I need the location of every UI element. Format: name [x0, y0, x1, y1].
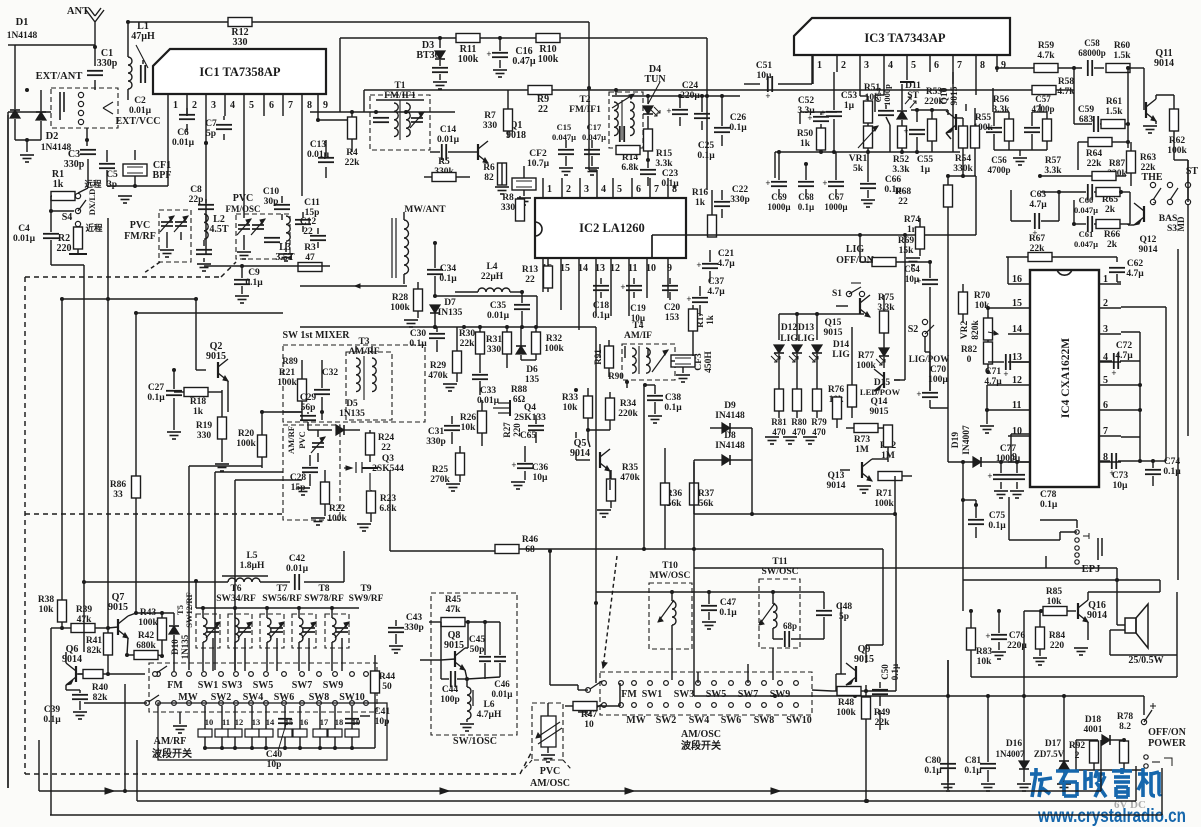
diode D5	[308, 399, 365, 435]
inductor L2	[196, 214, 229, 271]
bank1 padder caps C40 row	[158, 703, 387, 760]
svg-text:L5: L5	[246, 551, 257, 561]
svg-text:IC2 LA1260: IC2 LA1260	[579, 221, 645, 235]
svg-text:C81: C81	[965, 756, 982, 766]
resistor R32	[532, 327, 565, 360]
svg-text:SW6: SW6	[721, 715, 742, 726]
wire left v x108	[106, 218, 110, 628]
svg-text:4: 4	[230, 100, 235, 111]
LED D14	[809, 340, 850, 390]
svg-text:FM: FM	[167, 680, 183, 691]
resistor R23	[357, 490, 397, 531]
svg-text:IN4148: IN4148	[715, 411, 745, 421]
bank2 row1 labels	[621, 689, 790, 700]
svg-text:10µ: 10µ	[533, 473, 549, 483]
svg-text:4: 4	[888, 60, 893, 71]
resistor R3	[298, 243, 322, 272]
wire bank2 to q9	[812, 603, 880, 803]
svg-text:C46: C46	[494, 679, 510, 689]
svg-text:R87: R87	[1109, 159, 1126, 169]
svg-text:15: 15	[1012, 298, 1022, 309]
svg-text:68p: 68p	[783, 621, 797, 631]
svg-text:R5: R5	[438, 157, 450, 167]
capacitor C43	[388, 613, 424, 653]
svg-text:0.1µ: 0.1µ	[1040, 500, 1058, 510]
svg-text:R22: R22	[329, 504, 346, 514]
resistor R81	[765, 389, 787, 444]
svg-text:C32: C32	[322, 368, 339, 378]
svg-text:11: 11	[628, 263, 637, 274]
resistor R52	[892, 126, 910, 175]
speaker	[1117, 580, 1164, 666]
bank1 MW lever	[84, 695, 159, 705]
svg-text:0.1µ: 0.1µ	[592, 311, 610, 321]
wire q5 links	[574, 344, 648, 490]
resistor R37	[690, 462, 715, 516]
capacitor C75	[961, 498, 1006, 538]
capacitor C68	[798, 162, 815, 212]
resistor R49	[862, 689, 891, 730]
svg-text:135: 135	[525, 375, 540, 385]
wire x948 riser	[947, 660, 949, 696]
svg-text:VR1: VR1	[849, 154, 868, 164]
svg-text:C7: C7	[205, 119, 217, 129]
svg-text:2: 2	[841, 60, 846, 71]
svg-text:SW2: SW2	[656, 715, 677, 726]
wire lamp top rail	[652, 176, 976, 258]
svg-text:1k: 1k	[705, 315, 715, 325]
wire bottom risers	[39, 684, 1101, 801]
varactor AM/RF PVC	[286, 426, 325, 462]
svg-text:R47: R47	[581, 710, 598, 720]
svg-text:22: 22	[898, 197, 908, 207]
svg-text:9: 9	[323, 100, 328, 111]
resistor R47	[565, 683, 620, 730]
svg-text:0.1µ: 0.1µ	[798, 202, 815, 212]
svg-text:IC4 CXA1622M: IC4 CXA1622M	[1060, 338, 1072, 418]
svg-text:T8: T8	[318, 584, 329, 594]
IC2 bottom pins	[542, 258, 672, 330]
wire T4 out	[588, 430, 590, 447]
svg-text:C58: C58	[1084, 38, 1100, 48]
wire dashed gang top	[25, 262, 236, 277]
svg-text:12: 12	[1012, 375, 1022, 386]
bank2 contacts	[602, 681, 799, 708]
resistor R83	[967, 609, 993, 677]
svg-text:18: 18	[335, 717, 344, 727]
svg-text:4.7µ: 4.7µ	[707, 287, 725, 297]
capacitor C17	[582, 122, 606, 175]
transistor Q5 9014	[570, 438, 610, 480]
band switch bank1	[149, 663, 377, 712]
svg-text:4.7µ: 4.7µ	[1126, 269, 1144, 279]
resistor R4	[345, 112, 361, 168]
resistor R68	[895, 174, 953, 408]
svg-text:R38: R38	[38, 595, 55, 605]
capacitor C10	[263, 187, 290, 220]
svg-text:68000p: 68000p	[1078, 48, 1106, 58]
svg-text:9015: 9015	[108, 602, 128, 613]
svg-text:Q4: Q4	[524, 403, 536, 413]
ground bank1 MW	[173, 712, 187, 733]
capacitor C35	[487, 292, 530, 329]
transistor Q1 9018	[462, 120, 526, 163]
svg-text:+: +	[903, 126, 908, 136]
svg-text:R31: R31	[486, 335, 503, 345]
capacitor C59	[1074, 90, 1101, 132]
svg-text:C78: C78	[1040, 490, 1057, 500]
svg-text:Q15: Q15	[825, 318, 842, 328]
transformer T11 SW/OSC	[759, 557, 800, 648]
inductor L6	[460, 679, 502, 731]
resistor R86	[110, 440, 141, 514]
diode D3	[416, 36, 448, 89]
svg-text:FM/RF: FM/RF	[124, 231, 156, 242]
wire left h299	[62, 297, 198, 370]
svg-text:C66: C66	[885, 175, 902, 185]
resistor R6	[483, 163, 509, 194]
svg-text:R40: R40	[92, 683, 109, 693]
resistor R53	[911, 87, 948, 152]
svg-text:D16: D16	[1006, 739, 1023, 749]
svg-text:PVC: PVC	[540, 766, 561, 777]
svg-text:470: 470	[792, 427, 806, 437]
svg-text:4700p: 4700p	[987, 165, 1010, 175]
wire pins 12 11 gnd	[980, 385, 1008, 433]
svg-text:82k: 82k	[93, 693, 109, 703]
svg-text:33: 33	[113, 490, 123, 500]
transformer T10 MW/OSC	[649, 561, 692, 649]
resistor R74	[904, 215, 925, 265]
svg-text:R33: R33	[562, 393, 579, 403]
resistor R17	[689, 305, 716, 356]
svg-text:R83: R83	[976, 647, 993, 657]
svg-text:330p: 330p	[426, 437, 446, 447]
capacitor C4	[13, 196, 84, 265]
svg-text:+: +	[486, 49, 491, 59]
capacitor C51	[744, 56, 812, 101]
svg-text:R66: R66	[1104, 230, 1121, 240]
svg-text:C51: C51	[756, 61, 773, 71]
svg-text:D9: D9	[724, 401, 736, 411]
svg-text:R27: R27	[502, 422, 512, 438]
svg-text:100k: 100k	[458, 54, 479, 65]
svg-text:10p: 10p	[375, 717, 390, 727]
svg-text:0.01µ: 0.01µ	[307, 150, 330, 160]
wire jack to C3	[85, 128, 89, 146]
inductor L3	[275, 216, 295, 263]
svg-text:C6: C6	[177, 128, 189, 138]
svg-text:SW7: SW7	[292, 680, 313, 691]
label R89	[282, 356, 298, 366]
resistor R21	[277, 360, 306, 412]
svg-text:100k: 100k	[544, 344, 564, 354]
capacitor C41	[360, 707, 390, 727]
svg-text:C56: C56	[991, 155, 1007, 165]
svg-text:10k: 10k	[461, 423, 477, 433]
svg-text:D5: D5	[346, 399, 358, 409]
resistor R50	[797, 128, 826, 154]
svg-text:R26: R26	[460, 413, 477, 423]
IC3 pins	[813, 55, 1006, 72]
resistor R11	[456, 34, 480, 66]
svg-text:22p: 22p	[189, 195, 204, 205]
svg-text:100k: 100k	[1167, 146, 1187, 156]
svg-text:100p: 100p	[440, 695, 460, 705]
svg-text:R84: R84	[1049, 631, 1066, 641]
transistor Q2 9015	[196, 341, 228, 390]
transistor Q6 9014	[62, 644, 83, 690]
svg-text:0.01µ: 0.01µ	[487, 311, 510, 321]
wire Q16 emitter gnd	[1074, 648, 1088, 655]
svg-text:AM/OSC: AM/OSC	[681, 729, 721, 740]
capacitor C13	[307, 116, 356, 178]
svg-text:0.047µ: 0.047µ	[582, 132, 606, 142]
transformer T2 FM/IF1	[569, 92, 643, 148]
resistor R63	[1127, 142, 1157, 186]
ground below D2	[20, 155, 34, 162]
svg-text:1N135: 1N135	[339, 409, 365, 419]
svg-text:R41: R41	[86, 636, 103, 646]
svg-text:153: 153	[665, 313, 680, 323]
svg-text:3: 3	[864, 60, 869, 71]
svg-text:10: 10	[1012, 426, 1022, 437]
svg-text:D8: D8	[724, 431, 736, 441]
switch S1 LIG OFF/ON	[832, 244, 875, 299]
svg-text:AM/OSC: AM/OSC	[530, 778, 570, 789]
svg-text:3: 3	[584, 184, 589, 195]
capacitor C62	[1109, 259, 1144, 282]
resistor R19	[196, 390, 227, 450]
label SW 1st MIXER	[282, 330, 350, 341]
svg-text:2SK133: 2SK133	[514, 413, 546, 423]
svg-text:ANT: ANT	[67, 6, 89, 17]
svg-text:C45: C45	[469, 635, 486, 645]
svg-text:2: 2	[1103, 298, 1108, 309]
svg-text:C80: C80	[925, 756, 942, 766]
svg-text:8.2: 8.2	[1119, 722, 1131, 732]
svg-text:5p: 5p	[206, 129, 216, 139]
svg-text:1: 1	[817, 60, 822, 71]
wire dashed pvc diag	[144, 262, 160, 273]
svg-text:C12: C12	[300, 217, 317, 227]
svg-text:C52: C52	[798, 96, 815, 106]
wire top rail	[126, 20, 228, 24]
svg-text:220: 220	[512, 423, 522, 437]
svg-text:IN4148: IN4148	[715, 441, 745, 451]
capacitor C30	[409, 327, 445, 352]
wire bank2 drops	[672, 648, 773, 683]
svg-text:3.3k: 3.3k	[655, 159, 673, 169]
svg-text:+: +	[765, 178, 770, 188]
svg-text:4.7µH: 4.7µH	[477, 710, 502, 720]
svg-text:SW5: SW5	[706, 689, 727, 700]
svg-text:5k: 5k	[853, 164, 864, 174]
wire left v x83	[83, 265, 85, 652]
svg-text:+: +	[1003, 369, 1008, 379]
svg-text:1k: 1k	[53, 179, 64, 190]
resistor R16	[692, 188, 717, 237]
capacitor C54	[873, 84, 894, 152]
svg-text:Q3: Q3	[382, 454, 394, 464]
capacitor C38	[643, 383, 682, 423]
transistor Q3 2SK544	[344, 454, 404, 490]
svg-text:9014: 9014	[827, 481, 846, 491]
svg-text:C65: C65	[520, 431, 537, 441]
capacitor C12	[300, 217, 326, 248]
resistor R38	[38, 590, 67, 630]
wire lamp bus down	[651, 235, 653, 258]
capacitor C22	[714, 185, 750, 218]
svg-text:C13: C13	[310, 140, 327, 150]
svg-text:0.01µ: 0.01µ	[492, 689, 514, 699]
svg-text:13: 13	[595, 263, 605, 274]
diode D11 ST	[897, 81, 921, 127]
capacitor C7	[204, 116, 232, 145]
resistor R66	[1096, 192, 1130, 250]
svg-text:MW/ANT: MW/ANT	[404, 205, 446, 215]
svg-text:SW9/RF: SW9/RF	[349, 594, 384, 604]
svg-text:R6: R6	[483, 163, 495, 173]
svg-text:R92: R92	[1069, 741, 1086, 751]
wire second rail	[340, 38, 709, 190]
svg-text:R69: R69	[898, 236, 915, 246]
svg-text:SW6: SW6	[274, 692, 295, 703]
svg-text:LIG: LIG	[846, 244, 865, 255]
wire q13 to r72	[872, 456, 888, 462]
svg-text:220k: 220k	[618, 409, 638, 419]
resistor R12	[228, 18, 597, 179]
svg-text:7: 7	[288, 100, 293, 111]
svg-text:T9: T9	[360, 584, 371, 594]
svg-text:C23: C23	[662, 169, 679, 179]
svg-text:450H: 450H	[704, 351, 714, 373]
resistor R85	[1024, 587, 1076, 616]
svg-text:PVC: PVC	[233, 193, 254, 204]
svg-text:100µ: 100µ	[928, 375, 948, 385]
svg-text:14: 14	[266, 717, 275, 727]
capacitor C69	[765, 150, 791, 212]
svg-text:100k: 100k	[538, 54, 559, 65]
wire IC1 pin1 down	[167, 116, 169, 186]
capacitor C64	[904, 260, 938, 294]
capacitor C2	[115, 60, 160, 127]
transformer T3 AM/RF	[346, 337, 392, 420]
svg-text:EXT/VCC: EXT/VCC	[115, 116, 160, 127]
transformer T6	[216, 584, 256, 604]
transformer T7	[262, 584, 302, 604]
svg-text:D6: D6	[526, 365, 538, 375]
resistor R76	[828, 385, 845, 428]
svg-text:R68: R68	[895, 187, 912, 197]
svg-text:+: +	[820, 108, 825, 118]
svg-text:100k: 100k	[856, 361, 876, 371]
svg-text:22: 22	[525, 275, 535, 285]
svg-text:SW4: SW4	[689, 715, 710, 726]
wire main AM bus	[300, 325, 596, 329]
svg-text:12: 12	[610, 263, 620, 274]
svg-text:R52: R52	[893, 155, 910, 165]
dashed box mixer	[283, 345, 425, 520]
svg-text:C77: C77	[1000, 444, 1017, 454]
transformer T8	[304, 584, 344, 604]
svg-text:R70: R70	[974, 291, 991, 301]
svg-text:LIG/POW: LIG/POW	[909, 354, 950, 364]
capacitor C18	[592, 278, 610, 321]
capacitor C37	[686, 277, 725, 316]
svg-text:R32: R32	[546, 334, 563, 344]
svg-text:MW: MW	[178, 692, 197, 703]
svg-text:0.01µ: 0.01µ	[129, 106, 152, 116]
svg-text:2k: 2k	[1107, 240, 1118, 250]
svg-text:0.1µ: 0.1µ	[439, 274, 457, 284]
svg-text:+: +	[822, 178, 827, 188]
svg-text:820k: 820k	[971, 320, 981, 340]
transistor Q13 9014	[827, 459, 873, 493]
svg-text:R78: R78	[1117, 712, 1134, 722]
svg-text:SW2: SW2	[211, 692, 232, 703]
svg-text:C2: C2	[134, 96, 146, 106]
svg-text:LIG: LIG	[797, 334, 815, 344]
earphone jack EPJ	[1040, 520, 1102, 575]
svg-text:C11: C11	[304, 198, 320, 208]
svg-text:远程: 远程	[84, 179, 102, 189]
capacitor C72	[1099, 332, 1142, 437]
svg-text:0.1µ: 0.1µ	[890, 663, 900, 680]
svg-text:14: 14	[578, 263, 588, 274]
svg-text:C17: C17	[587, 122, 602, 132]
svg-text:330: 330	[233, 37, 248, 48]
svg-text:3: 3	[211, 100, 216, 111]
svg-text:6: 6	[636, 184, 641, 195]
resistor R84	[1033, 611, 1065, 665]
svg-text:+: +	[1111, 368, 1116, 378]
capacitor C48 68p	[773, 592, 852, 647]
transistor Q8 9015	[441, 620, 470, 681]
resistor R77	[848, 327, 877, 418]
svg-text:10k: 10k	[39, 605, 55, 615]
IC1 pins 1-9	[168, 94, 328, 116]
resistor R61	[1101, 68, 1130, 148]
svg-text:R75: R75	[878, 293, 895, 303]
svg-text:C62: C62	[1127, 259, 1144, 269]
svg-text:MW: MW	[626, 715, 645, 726]
wire pin8 down	[301, 116, 303, 196]
diode D18	[1076, 715, 1122, 745]
svg-text:10µ: 10µ	[1113, 481, 1129, 491]
svg-text:0.047µ: 0.047µ	[1074, 239, 1098, 249]
svg-text:SW/OSC: SW/OSC	[762, 567, 799, 577]
capacitor C44	[440, 622, 467, 705]
svg-text:L4: L4	[486, 262, 497, 272]
svg-text:22k: 22k	[460, 339, 476, 349]
svg-text:100k: 100k	[277, 378, 297, 388]
diode D6	[516, 327, 539, 385]
svg-text:IN135: IN135	[438, 308, 463, 318]
resistor R82	[961, 342, 993, 374]
svg-text:R55: R55	[975, 113, 992, 123]
capacitor C50	[872, 663, 900, 706]
wire right v905	[894, 235, 905, 380]
resistor R75	[877, 293, 895, 340]
diode D10	[169, 613, 190, 671]
LED D15	[860, 340, 901, 397]
capacitor C5	[99, 150, 118, 190]
wire right margin2	[1177, 249, 1179, 580]
svg-text:0.1µ: 0.1µ	[964, 766, 982, 776]
wire y266 bus	[204, 265, 330, 267]
svg-text:0: 0	[967, 355, 972, 365]
